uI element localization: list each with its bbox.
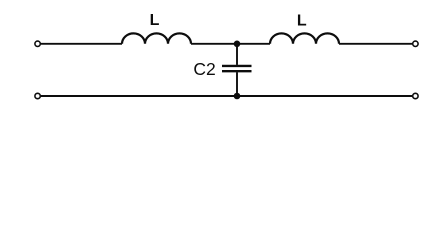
svg-text:C2: C2 [193,59,215,79]
svg-text:L: L [150,12,160,29]
svg-text:L: L [297,13,307,30]
